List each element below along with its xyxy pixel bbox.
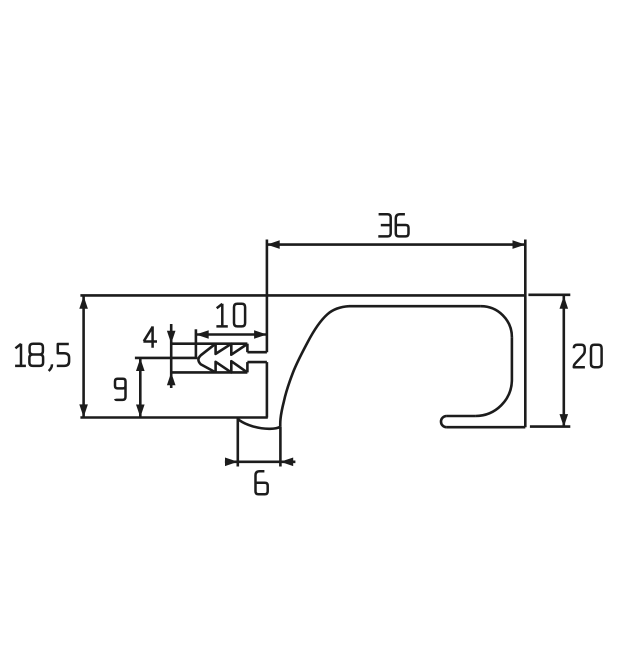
slot bottom edge [171, 371, 247, 374]
profile box right edge upper / dim 36 left extension [266, 240, 269, 353]
dim 9 line [139, 358, 142, 417]
slot step vertical upper [246, 344, 249, 353]
label 9 [115, 379, 126, 400]
profile hook right edge / dim 36 right extension [524, 240, 527, 428]
dim 36 right arrowhead [513, 240, 526, 249]
label 20 digit 2 [574, 345, 585, 367]
dim 4 top arrowhead [167, 331, 176, 344]
hook lip rounded tip [441, 416, 447, 427]
slot deep-end vertical / dim 10 left extension [195, 329, 198, 358]
slot step vertical lower [246, 362, 249, 372]
dim 6 right arrowhead [280, 458, 293, 467]
label 18,5 digit 8 [29, 344, 43, 366]
label 36 digit 3 [378, 214, 390, 236]
slot mouth top step [247, 351, 267, 354]
label 6 [256, 471, 268, 494]
dim 20 bottom arrowhead [560, 414, 569, 427]
profile top edge [80, 294, 525, 297]
dim 6 line [225, 460, 296, 463]
dim 9 top arrowhead [136, 358, 145, 371]
dim 18,5 bottom arrowhead [79, 404, 88, 417]
label 4 [143, 326, 157, 347]
dim 4 line [170, 324, 173, 388]
profile box right edge lower [266, 362, 269, 417]
dim 4 bottom arrowhead [167, 372, 176, 385]
sloped wall S-curve [280, 306, 349, 427]
slot mouth bottom step [247, 361, 267, 364]
label 10 digit 1 [216, 304, 227, 327]
dim 20 top extension [528, 293, 570, 296]
dim 10 line [196, 333, 267, 336]
barbed spline top teeth [216, 344, 248, 355]
hook inner right wall [511, 337, 514, 379]
hook inner bottom edge [447, 415, 476, 418]
dim 6 right extension [279, 427, 282, 467]
label 20 digit 0 [591, 345, 602, 367]
dim 20 line [562, 295, 565, 427]
dim 36 line [267, 243, 525, 246]
label 36 digit 6 [396, 214, 409, 236]
hook inner bottom-right radius [475, 380, 512, 417]
label 10 digit 0 [234, 304, 245, 327]
label 18,5 digit 1 [15, 344, 26, 366]
dim 10 right arrowhead [254, 330, 267, 339]
leg bottom dip curve [238, 418, 280, 429]
hook inner top-right radius [481, 306, 512, 337]
hook inner top edge [349, 305, 481, 308]
dim 6 left arrowhead [225, 458, 238, 467]
dim 9 top extension [135, 357, 198, 360]
dim 6 left extension [237, 419, 240, 467]
dim 36 left arrowhead [267, 240, 280, 249]
dim 10 left arrowhead [196, 330, 209, 339]
dim 9 bottom arrowhead [136, 405, 145, 418]
barbed spline bottom teeth [216, 361, 248, 372]
profile left edge / dim 18,5 line [82, 295, 85, 417]
label 18,5 digit 5 [57, 344, 69, 366]
profile bottom edge [80, 416, 267, 419]
slot top edge [171, 342, 247, 345]
dim 18,5 top arrowhead [79, 296, 88, 309]
dim 20 bottom extension [530, 425, 570, 428]
barbed spline arms and tip [198, 344, 215, 373]
dim 20 top arrowhead [560, 296, 569, 309]
label 18,5 comma [49, 364, 52, 371]
hook bottom edge [447, 426, 526, 429]
